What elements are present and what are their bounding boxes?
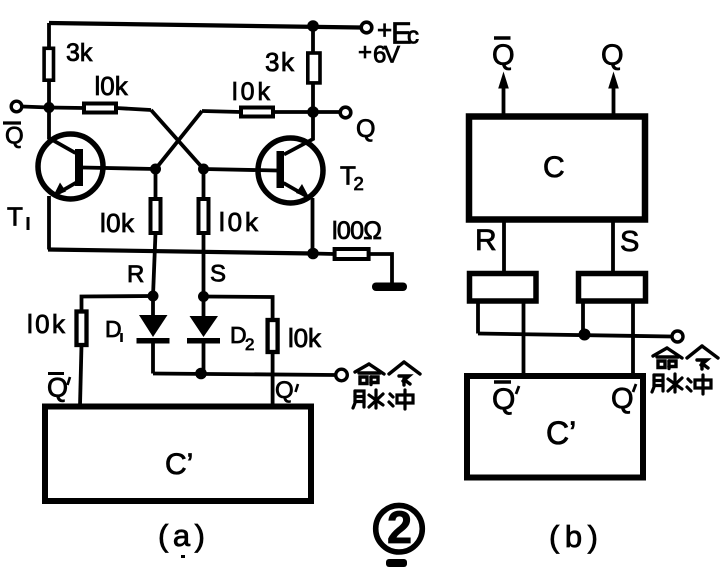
svg-text:c: c xyxy=(407,23,419,50)
node S xyxy=(198,291,209,302)
wire 10k to Q node xyxy=(273,110,313,114)
resistor 10k bias right xyxy=(268,320,278,352)
svg-text:S: S xyxy=(210,261,226,288)
node base T2 xyxy=(198,164,209,175)
wire 100ohm left lead xyxy=(313,252,334,256)
wire Q terminal lead xyxy=(313,110,339,114)
terminal trigger pulse xyxy=(336,369,348,381)
label ming-ling pulse a xyxy=(355,364,384,385)
svg-text:Q: Q xyxy=(492,40,515,72)
wire S gate to C' xyxy=(631,303,635,374)
svg-text:l0k: l0k xyxy=(95,71,129,101)
resistor 10k cross-coupling left xyxy=(84,104,116,113)
node collector T2 xyxy=(307,106,319,118)
wire R node to left 10k xyxy=(82,296,154,312)
resistor 3k left xyxy=(44,48,53,80)
diode D2 xyxy=(187,297,220,374)
wire S gate to bus xyxy=(581,303,585,335)
stray scan dot xyxy=(181,555,185,558)
wire R input xyxy=(502,221,506,272)
svg-text:2: 2 xyxy=(387,502,412,553)
node R xyxy=(148,291,159,302)
node trigger bus xyxy=(195,368,207,380)
wire trigger bus b xyxy=(478,334,672,337)
block C' control (a) xyxy=(45,407,311,502)
svg-text:l0k: l0k xyxy=(288,323,322,353)
diode D1 xyxy=(137,296,170,374)
svg-text:+: + xyxy=(358,39,372,66)
terminal +Ec supply xyxy=(361,22,372,33)
node base T1 xyxy=(150,164,161,175)
wire to S node xyxy=(202,233,206,296)
block R gate xyxy=(470,274,537,302)
wire cross diagonal to T1 base xyxy=(156,111,203,169)
resistor 10k base left xyxy=(151,199,161,233)
arrowhead Q xyxy=(608,72,619,89)
svg-text:Q: Q xyxy=(275,377,294,404)
svg-text:R: R xyxy=(127,261,144,288)
wire R gate to C' xyxy=(522,303,526,374)
svg-text:l00Ω: l00Ω xyxy=(332,217,382,245)
svg-text:Q: Q xyxy=(492,383,515,416)
svg-text:Q: Q xyxy=(47,373,68,403)
svg-text:(b): (b) xyxy=(549,519,598,554)
wire Q arrow xyxy=(612,84,616,115)
node supply junction xyxy=(307,20,319,32)
block C flip-flop (b) xyxy=(469,117,645,220)
wire 100ohm to ground xyxy=(369,254,392,284)
svg-text:Q: Q xyxy=(601,40,624,72)
stray scan mark bottom xyxy=(386,559,407,567)
resistor 10k base right xyxy=(199,199,209,233)
svg-text:Q: Q xyxy=(356,115,375,143)
svg-text:+: + xyxy=(377,15,392,45)
label ming-ling pulse b xyxy=(653,348,682,369)
ground xyxy=(372,283,407,292)
wire emitter rail xyxy=(48,250,313,254)
wire left 10k lead xyxy=(49,106,84,110)
resistor 3k right xyxy=(308,53,320,83)
svg-text:C’: C’ xyxy=(546,415,576,451)
block S gate xyxy=(579,274,646,302)
wire R gate to bus xyxy=(476,303,480,334)
wire trigger pulse bus xyxy=(153,374,336,376)
svg-text:Q: Q xyxy=(611,383,634,415)
wire 3k bottom lead xyxy=(47,80,51,108)
wire base T2 to S resistor xyxy=(202,169,206,199)
node trigger bus b xyxy=(579,329,591,341)
svg-text:6V: 6V xyxy=(373,42,400,69)
wire cross diagonal to T2 base xyxy=(151,110,204,169)
svg-text:D: D xyxy=(105,316,122,342)
svg-text:Q: Q xyxy=(5,123,24,150)
transistor Q1 T1 xyxy=(38,108,156,250)
node emitter rail right xyxy=(307,248,319,260)
wire left 3k top lead xyxy=(47,23,51,48)
svg-text:S: S xyxy=(620,226,639,258)
wire Qbar arrow xyxy=(502,84,506,115)
wire 3k bottom lead xyxy=(311,83,315,112)
resistor 10k bias left xyxy=(77,312,87,346)
terminal trigger pulse b xyxy=(672,331,683,342)
wire to R node xyxy=(153,233,156,296)
transistor Q2 T2 xyxy=(204,112,324,254)
svg-text:R: R xyxy=(475,224,497,257)
block C' control (b) xyxy=(467,376,643,478)
wire right 10k to C' box xyxy=(271,352,275,406)
svg-text:T: T xyxy=(7,202,23,232)
wire S node to right 10k xyxy=(204,297,273,321)
node collector T1 xyxy=(44,102,55,113)
svg-text:2: 2 xyxy=(245,335,254,354)
wire S input xyxy=(611,221,615,272)
terminal Q output xyxy=(340,107,351,118)
svg-text:l0k: l0k xyxy=(100,208,135,238)
arrowhead Qbar xyxy=(498,72,509,89)
svg-text:C: C xyxy=(543,151,565,184)
svg-text:3k: 3k xyxy=(66,39,93,67)
wire 10k right lead xyxy=(116,108,151,110)
resistor 10k cross-coupling right xyxy=(241,108,273,117)
svg-text:C’: C’ xyxy=(165,448,193,481)
wire Qbar terminal lead xyxy=(22,107,49,108)
wire top supply rail xyxy=(49,23,360,28)
figure number circle xyxy=(376,505,423,552)
terminal Qbar output xyxy=(11,101,22,112)
svg-text:2: 2 xyxy=(354,173,364,194)
wire right 3k top lead xyxy=(311,26,315,53)
wire right 10k left lead xyxy=(202,111,241,112)
svg-text:(a): (a) xyxy=(158,518,205,553)
resistor 100ohm xyxy=(335,249,369,259)
wire left 10k to C' box xyxy=(80,345,82,406)
wire base T1 to R resistor xyxy=(154,169,158,199)
